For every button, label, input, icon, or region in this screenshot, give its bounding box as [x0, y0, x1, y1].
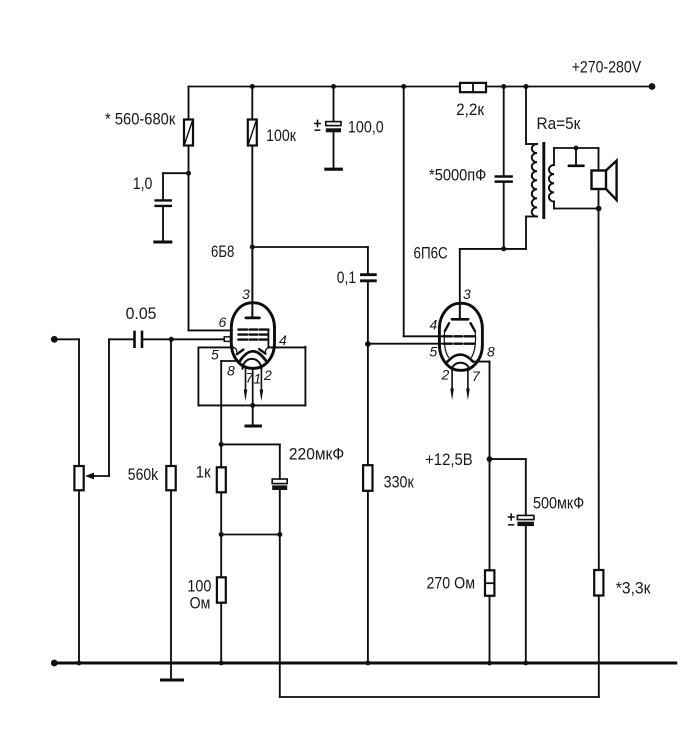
svg-text:+270-280V: +270-280V [572, 58, 642, 77]
svg-text:Ом: Ом [190, 593, 211, 612]
svg-text:1,0: 1,0 [133, 174, 153, 193]
svg-text:6П6С: 6П6С [414, 244, 448, 263]
svg-text:100к: 100к [266, 126, 296, 145]
svg-text:0,1: 0,1 [337, 268, 356, 287]
svg-text:270 Ом: 270 Ом [427, 573, 476, 592]
svg-text:500мкФ: 500мкФ [533, 494, 584, 513]
svg-text:0.05: 0.05 [126, 304, 157, 323]
svg-text:6Б8: 6Б8 [211, 242, 234, 261]
svg-text:*3,3к: *3,3к [616, 579, 651, 598]
svg-text:+12,5В: +12,5В [425, 450, 473, 469]
svg-text:8: 8 [487, 344, 495, 360]
svg-text:1к: 1к [196, 462, 212, 481]
svg-text:560k: 560k [128, 465, 159, 484]
svg-text:6: 6 [219, 314, 227, 330]
svg-text:*5000пФ: *5000пФ [429, 166, 486, 185]
svg-text:5: 5 [211, 347, 219, 363]
svg-text:8: 8 [227, 363, 235, 379]
svg-text:Ra=5к: Ra=5к [537, 114, 582, 133]
svg-text:5: 5 [430, 344, 438, 360]
svg-text:4: 4 [430, 317, 438, 333]
svg-text:2: 2 [441, 367, 450, 383]
svg-text:4: 4 [279, 332, 287, 348]
svg-text:330к: 330к [384, 472, 415, 491]
svg-text:2,2к: 2,2к [456, 100, 485, 119]
svg-text:220мкФ: 220мкФ [289, 444, 344, 463]
svg-text:1: 1 [254, 371, 262, 387]
svg-text:* 560-680к: * 560-680к [105, 109, 176, 128]
svg-text:2: 2 [263, 367, 272, 383]
svg-text:3: 3 [242, 286, 250, 302]
svg-text:100,0: 100,0 [348, 118, 384, 137]
svg-text:3: 3 [463, 286, 471, 302]
svg-text:7: 7 [472, 368, 481, 384]
